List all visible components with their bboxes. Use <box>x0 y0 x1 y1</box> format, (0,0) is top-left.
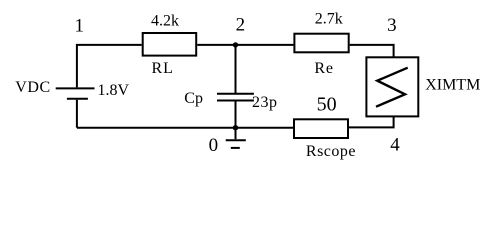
wire: Cp bottom plate down to bottom rail <box>235 101 237 128</box>
svg-text:23p: 23p <box>252 94 278 111</box>
svg-text:2.7k: 2.7k <box>315 11 343 28</box>
wire: node 2 down to Cp top plate <box>235 45 237 94</box>
wire: bottom rail from battery to Rscope <box>77 127 293 129</box>
svg-text:4.2k: 4.2k <box>151 12 179 29</box>
svg-text:50: 50 <box>317 93 337 115</box>
resistor Rscope body <box>294 119 348 138</box>
instrument U1 XIMTM zigzag symbol <box>376 68 408 107</box>
ground symbol: lower bar <box>231 147 240 149</box>
resistor Re body <box>294 34 348 53</box>
ground symbol at node 0: stub <box>235 128 237 140</box>
wire: top-left corner from node 1 down to battery <box>77 45 142 88</box>
svg-text:1.8V: 1.8V <box>98 82 130 99</box>
svg-text:3: 3 <box>387 15 397 36</box>
svg-text:RL: RL <box>152 60 174 77</box>
junction dot at node 0 <box>233 125 238 130</box>
resistor RL body <box>143 33 197 56</box>
svg-text:4: 4 <box>390 135 400 156</box>
ground symbol: upper bar <box>226 139 246 141</box>
svg-text:VDC: VDC <box>15 79 51 96</box>
wire: Re right to node 3 corner down to XIMTM top pin <box>350 45 394 57</box>
instrument U1 XIMTM box <box>366 57 418 116</box>
junction dot at node 2 <box>233 42 238 47</box>
capacitor Cp: bottom plate <box>217 100 254 102</box>
svg-text:Re: Re <box>314 60 333 77</box>
svg-text:1: 1 <box>75 15 85 36</box>
wire: RL right to node 2 <box>197 44 235 46</box>
wire: node 2 to Re left <box>236 44 294 46</box>
svg-text:0: 0 <box>209 135 219 156</box>
battery V1 VDC: bottom plate (short) <box>67 98 88 100</box>
svg-text:2: 2 <box>236 14 246 35</box>
svg-text:Cp: Cp <box>184 90 203 107</box>
wire: battery bottom to bottom rail <box>76 100 78 128</box>
wire: XIMTM bottom pin down to node 4 corner left to Rscope right <box>349 116 394 127</box>
svg-text:XIMTM: XIMTM <box>425 77 480 94</box>
svg-text:Rscope: Rscope <box>306 143 356 160</box>
battery V1 VDC: top plate (long) <box>56 87 95 89</box>
capacitor Cp: top plate <box>217 93 254 95</box>
